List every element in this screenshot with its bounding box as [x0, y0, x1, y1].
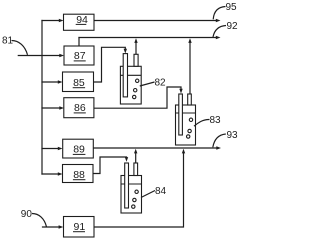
leader 95	[213, 7, 225, 20]
svg-text:91: 91	[74, 221, 86, 233]
leader 81	[12, 41, 28, 55]
wire riser cell 83 to line 92	[189, 42, 191, 95]
arrow into box 88	[58, 172, 63, 175]
underline 91	[73, 231, 85, 233]
wire input line 81	[18, 55, 59, 57]
bubble	[133, 95, 136, 98]
bubble	[132, 205, 135, 208]
bubble	[188, 129, 191, 132]
bubble	[133, 198, 136, 201]
electrode 82	[123, 54, 127, 97]
cell 82	[120, 54, 141, 104]
wire box 85 to cell 82	[94, 47, 126, 82]
leader 84	[141, 191, 155, 198]
arrow into box 94	[59, 19, 64, 22]
underline 88	[73, 179, 86, 181]
tube 84	[134, 163, 138, 176]
arrow up from cell 82 riser into line 92	[134, 38, 137, 43]
arrow down onto cell 84 electrode	[125, 157, 128, 162]
wire line 92	[79, 37, 216, 39]
svg-text:84: 84	[155, 186, 167, 197]
container 83	[176, 105, 196, 145]
bubble	[187, 135, 190, 138]
arrow into box 89	[58, 147, 63, 150]
svg-text:95: 95	[226, 2, 238, 13]
liquid level 82	[120, 74, 141, 76]
leader 90	[32, 214, 47, 227]
underline 85	[73, 87, 85, 89]
box 86	[64, 98, 94, 118]
arrow up from cell 83 riser into line 92	[188, 38, 191, 43]
wire bus vertical	[41, 21, 43, 175]
leader 92	[213, 26, 226, 38]
svg-text:87: 87	[74, 50, 86, 62]
svg-text:85: 85	[73, 77, 85, 89]
wire box 86 to cell 83	[94, 87, 181, 108]
leader 82	[140, 82, 155, 86]
underline 89	[73, 153, 86, 155]
bubble	[134, 89, 137, 92]
svg-text:92: 92	[227, 21, 239, 32]
leader curves	[12, 7, 227, 227]
tube 82	[134, 54, 138, 66]
wire line 93 from box 89	[94, 147, 217, 149]
wire box 88 to cell 84	[93, 157, 127, 174]
arrow into box 91	[59, 225, 64, 228]
box 89	[63, 139, 94, 158]
wire line 95 from box 94	[94, 20, 216, 22]
arrow into box 87	[59, 54, 64, 57]
arrow up from cell 84 riser into line 93	[134, 149, 137, 154]
bubble	[136, 79, 139, 82]
wire branch to 89	[42, 148, 58, 150]
underline 94	[76, 23, 87, 25]
svg-text:93: 93	[227, 130, 239, 141]
arrow down onto cell 82 electrode	[124, 49, 127, 54]
box 91	[64, 217, 95, 238]
wire branch to 85	[42, 81, 58, 83]
svg-text:81: 81	[2, 36, 14, 47]
wire riser from box 87 top	[78, 38, 80, 47]
tube 83	[188, 94, 192, 105]
wire branch to 88	[42, 173, 58, 175]
box 94	[64, 14, 95, 30]
svg-text:89: 89	[73, 144, 85, 156]
svg-text:88: 88	[73, 169, 85, 181]
svg-text:86: 86	[74, 102, 86, 114]
underline 87	[74, 60, 86, 62]
arrow into box 86	[59, 106, 64, 109]
svg-text:82: 82	[155, 78, 167, 89]
liquid level 83	[176, 112, 196, 114]
container 84	[121, 176, 142, 214]
box 88	[63, 165, 94, 183]
arrow into box 85	[58, 80, 63, 83]
underline 86	[74, 112, 86, 114]
electrode 83	[179, 94, 183, 135]
svg-text:83: 83	[210, 115, 222, 126]
liquid level 84	[121, 183, 142, 185]
wire branch to 86	[42, 107, 60, 109]
arrow end of line 95	[216, 19, 221, 22]
electrode 84	[125, 163, 129, 208]
wire riser cell 84 to line 93	[135, 152, 137, 163]
bubble	[135, 190, 138, 193]
leader 93	[213, 134, 226, 147]
cell 83	[176, 94, 196, 145]
leader 83	[194, 119, 210, 126]
cell 84	[121, 163, 142, 213]
arrow end of line 92	[216, 36, 221, 39]
box 85	[63, 72, 94, 92]
arrow end of line 93	[216, 146, 221, 149]
arrow up from box 91 riser into line 93	[182, 149, 185, 154]
wire input line 90	[43, 226, 60, 228]
wire box 91 output riser	[94, 153, 184, 228]
box 87	[64, 46, 94, 65]
wire branch to 94	[42, 20, 59, 22]
container 82	[120, 66, 141, 104]
arrow down onto cell 83 electrode	[179, 89, 182, 94]
svg-text:90: 90	[21, 209, 33, 220]
wire riser cell 82 to line 92	[135, 42, 137, 55]
bubble	[189, 118, 192, 121]
